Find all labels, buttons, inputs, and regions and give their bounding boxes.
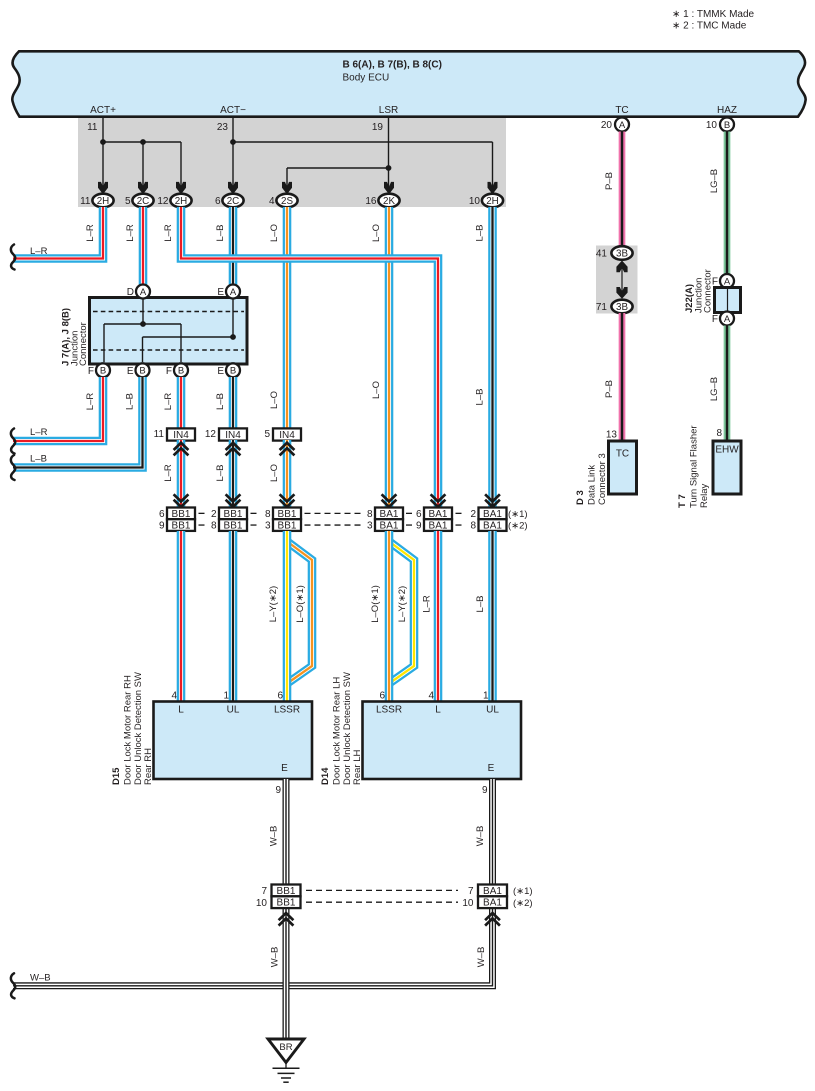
svg-text:ACT−: ACT− [220,105,246,116]
wire W-B D14 E down [489,779,496,885]
svg-text:71: 71 [596,302,608,313]
svg-text:B: B [230,366,236,377]
break symbol left L-R top [11,245,15,270]
arrow into 2H-10 [488,182,498,194]
svg-text:L–B: L–B [475,225,486,242]
svg-text:ACT+: ACT+ [90,105,116,116]
dashed link bottom link 10 [306,901,458,903]
svg-text:2H: 2H [175,196,188,207]
wire L-R from 2C5 to JC D [139,207,148,285]
svg-text:L–R: L–R [163,224,174,242]
connector BA1 8 col492.5 [479,519,507,531]
svg-text:E: E [217,366,224,377]
svg-text:BB1: BB1 [278,521,297,532]
connector BA1 10 bottom [478,896,507,908]
connector BB1 6 col181 [167,508,195,520]
svg-text:B 6(A), B 7(B), B 8(C): B 6(A), B 7(B), B 8(C) [343,60,442,71]
svg-text:P–B: P–B [604,380,615,398]
connector 2H pin11 [92,194,113,208]
label D14 title [320,672,363,785]
junction J7 node D [140,321,146,327]
wire J7 internal E drop [232,299,234,337]
svg-text:10: 10 [706,120,718,131]
svg-text:D14: D14 [320,767,331,785]
label D15 title [111,672,154,785]
svg-text:L–R: L–R [422,595,433,613]
wire J7 internal drop F2 [180,324,182,362]
svg-text:∗ 1 : TMMK Made: ∗ 1 : TMMK Made [672,9,755,20]
svg-text:3B: 3B [616,248,628,259]
svg-text:2: 2 [211,509,217,520]
wire L-O BA1 to D14 LSSR [385,531,394,701]
wire P-B TC down [619,132,626,248]
svg-text:Relay: Relay [699,483,710,508]
arrow into 2H-11 [98,182,108,194]
wire L-R BA1 to D14 L [434,531,443,701]
break symbol left L-R mid [11,429,15,454]
wire L-R from 2H11 to left [13,207,103,259]
svg-text:19: 19 [372,122,384,133]
pin J7 F(B)1 [96,363,110,377]
svg-text:D 3: D 3 [575,490,586,505]
svg-text:3: 3 [367,521,373,532]
svg-text:9: 9 [416,521,422,532]
break symbol left W-B bottom [11,973,15,998]
svg-text:10: 10 [256,898,268,909]
pin ECU HAZ pin B [720,118,734,132]
svg-text:P–B: P–B [604,172,615,190]
svg-text:12: 12 [157,196,169,207]
pin J22 F(A) bottom [720,312,734,326]
dashed link link b [251,512,261,514]
wire ACT+ branch bus [103,141,181,143]
svg-text:BB1: BB1 [224,521,243,532]
svg-text:Door Lock Motor Rear RH: Door Lock Motor Rear RH [123,675,134,785]
arrow down into 3B71 [616,287,627,299]
door lock motor rear LH D14 [363,691,522,780]
svg-text:BA1: BA1 [380,521,399,532]
junction connector J22 box [715,288,741,313]
svg-text:Connector: Connector [78,322,89,366]
svg-text:LSR: LSR [379,105,398,116]
wire W-B BB1 to ground [283,908,290,1038]
wire branch drop 2H12 [180,142,182,187]
dashed link link c [305,512,365,514]
svg-text:L–B: L–B [475,596,486,613]
pin J7 E(B)1 [136,363,150,377]
wire P-B to DLC3 [619,313,626,440]
svg-text:13: 13 [606,430,618,441]
wire L-B from 2C6 to JC E [229,207,238,285]
svg-text:3B: 3B [616,302,628,313]
svg-text:Rear LH: Rear LH [352,749,363,785]
svg-text:Connector 3: Connector 3 [597,453,608,505]
svg-text:L–R: L–R [163,464,174,482]
svg-text:1: 1 [223,691,229,702]
gray harness area [78,117,506,207]
wire L-Y BB1 to D15 LSSR [283,531,292,701]
connector 2C pin6 [222,194,243,208]
svg-text:6: 6 [379,691,385,702]
wire LSR branch bus [287,167,389,169]
svg-text:9: 9 [159,521,165,532]
svg-text:(∗1): (∗1) [508,509,528,520]
svg-text:LG–B: LG–B [709,377,720,401]
svg-text:L–O: L–O [269,224,280,242]
svg-text:2H: 2H [486,196,499,207]
svg-text:16: 16 [365,196,377,207]
svg-text:2C: 2C [227,196,240,207]
svg-text:L–R: L–R [85,393,96,411]
pin J7 D(A) [136,285,150,299]
connector BB1 9 col181 [167,519,195,531]
break symbol left L-B mid [11,455,15,480]
svg-text:E: E [217,287,224,298]
connector BB1 10 bottom [272,896,301,908]
wire L-O from 2S4 [283,207,292,429]
svg-text:W–B: W–B [475,826,486,847]
svg-text:5: 5 [264,429,270,440]
wire W-B D15 E down [283,779,290,885]
svg-text:F: F [166,366,172,377]
wire ACT- drop [232,117,234,187]
svg-text:BA1: BA1 [429,521,448,532]
svg-text:10: 10 [462,898,474,909]
svg-text:L–B: L–B [125,393,136,410]
wire LG-B to flasher [724,326,731,441]
svg-text:6: 6 [215,196,221,207]
svg-text:2H: 2H [97,196,110,207]
svg-text:L–R: L–R [85,224,96,242]
gray area TC splice [596,246,638,314]
dashed link bottom link 7 [306,889,458,891]
svg-text:3: 3 [265,521,271,532]
T7 flasher relay box [713,441,741,494]
connector arrow below pair x286 [279,913,294,926]
wire L-B IN4 to BB1 [229,440,238,508]
svg-text:L–R: L–R [30,246,48,257]
connector arrow above BB1 x287 [280,494,295,507]
svg-text:W–B: W–B [269,826,280,847]
pin J7 E(B)2 [226,363,240,377]
wire L-O IN4 to BB1 [283,440,292,508]
connector 2S pin4 [276,194,297,208]
svg-text:9: 9 [275,785,281,796]
connector BA1 7 bottom [478,885,507,897]
svg-text:6: 6 [277,691,283,702]
svg-text:LSSR: LSSR [274,705,300,716]
svg-text:12: 12 [205,429,217,440]
wire LSR drop [388,117,390,187]
svg-text:L–B: L–B [475,389,486,406]
connector 2K pin16 [378,194,399,208]
svg-text:L–O: L–O [269,391,280,409]
wire L-B BB1 to D15 UL [229,531,238,701]
connector BB1 3 col287 [273,519,301,531]
svg-text:LG–B: LG–B [709,169,720,193]
svg-text:E: E [488,763,495,774]
svg-text:L–Y(∗2): L–Y(∗2) [397,586,408,622]
svg-text:A: A [230,287,237,298]
label J22 title [684,269,714,313]
junction LSR node [386,165,392,171]
svg-text:(∗2): (∗2) [508,521,528,532]
dashed link link e [456,512,465,514]
svg-text:2S: 2S [281,196,293,207]
svg-text:5: 5 [125,196,131,207]
svg-text:8: 8 [265,509,271,520]
svg-text:6: 6 [159,509,165,520]
connector BB1 7 bottom [272,885,301,897]
svg-text:L–B: L–B [30,454,47,465]
wire L-B from 2H10 [488,207,497,508]
junction ACT+ node [100,139,106,145]
arrow into 2C-5 [138,182,148,194]
svg-text:HAZ: HAZ [717,105,737,116]
connector arrow above BB1 x438 [431,494,446,507]
svg-text:8: 8 [211,521,217,532]
junction ACT+ node b [140,139,146,145]
svg-text:11: 11 [154,429,165,440]
connector IN4 pin11 [167,428,195,441]
wire J7 internal D drop [142,299,144,324]
wire L-O loop D15 LSSR [289,543,313,683]
connector BA1 3 col389 [375,519,403,531]
svg-text:Turn Signal Flasher: Turn Signal Flasher [689,425,700,508]
dashed link link e [456,524,465,526]
svg-text:1: 1 [483,691,489,702]
wire branch drop 2S4 [286,168,288,187]
wire L-B from E(B)2 to IN4 [229,377,238,429]
svg-text:A: A [724,276,731,287]
svg-text:EHW: EHW [715,445,739,456]
junction ACT- node [230,139,236,145]
svg-text:11: 11 [87,122,98,133]
wire L-R BB1 to D15 L [177,531,186,701]
connector BA1 8 col389 [375,508,403,520]
svg-text:Connector: Connector [703,269,714,313]
svg-text:2K: 2K [383,196,395,207]
wire branch drop 2H10 [492,142,494,187]
wire LG-B HAZ down [724,132,731,275]
connector BA1 9 col438 [424,519,452,531]
svg-text:L–R: L–R [125,224,136,242]
svg-text:IN4: IN4 [173,430,189,441]
svg-text:L: L [435,705,441,716]
svg-text:4: 4 [428,691,434,702]
connector BA1 2 col492.5 [479,508,507,520]
svg-text:L–Y(∗2): L–Y(∗2) [268,586,279,622]
wire J7 internal bus1 [104,323,181,325]
connector arrow above BB1 x389 [382,494,397,507]
svg-text:8: 8 [367,509,373,520]
svg-text:10: 10 [469,196,481,207]
svg-text:A: A [724,314,731,325]
svg-text:∗ 2 : TMC Made: ∗ 2 : TMC Made [672,21,747,32]
svg-text:41: 41 [596,249,608,260]
svg-text:B: B [100,366,106,377]
svg-text:F: F [88,366,94,377]
label D3 title [575,453,608,505]
junction connector J7/J8 box [90,298,248,365]
dashed link link a [199,512,209,514]
svg-text:W–B: W–B [476,947,487,968]
door lock motor rear RH D15 [154,691,313,780]
connector BB1 8 col233 [219,519,247,531]
D3 data link connector box [609,441,637,494]
wire L-R from F(B)1 to left [13,377,103,441]
svg-text:L–O(∗1): L–O(∗1) [370,585,381,623]
svg-text:11: 11 [80,196,91,207]
svg-text:(∗2): (∗2) [513,898,533,909]
wire ACT+ drop [102,117,104,187]
svg-text:23: 23 [217,122,229,133]
svg-text:D: D [127,287,134,298]
svg-text:W–B: W–B [270,947,281,968]
arrow into 2S-4 [282,182,292,194]
connector 3B pin41 [611,246,632,260]
svg-text:(∗1): (∗1) [513,886,533,897]
wire L-O from 2K16 [385,207,394,508]
label T7 title [677,425,710,508]
connector arrow above BB1 x233 [226,494,241,507]
wire W-B BA1 to ground bus [13,908,493,986]
ECU B6/B7/B8 Body ECU band [12,51,805,116]
svg-text:B: B [139,366,145,377]
wire J7 internal drop F1 [103,324,105,362]
arrow into 2H-12 [176,182,186,194]
wire L-Y loop D14 LSSR [391,543,415,683]
svg-text:7: 7 [261,886,267,897]
wire L-R from 2H12 over to BA1 [181,207,438,508]
dashed link link d [406,524,414,526]
wire L-R IN4 to BB1 [177,440,186,508]
svg-text:L–O: L–O [371,381,382,399]
svg-text:8: 8 [716,428,722,439]
pin ECU TC pin A [615,118,629,132]
arrow into 2K-16 [384,182,394,194]
svg-text:IN4: IN4 [225,430,241,441]
connector IN4 pin5 [273,428,301,441]
junction J7 node E [230,334,236,340]
connector 2H pin12 [170,194,191,208]
wire branch drop 2C5 [142,142,144,187]
svg-text:BA1: BA1 [483,521,502,532]
arrow up into 3B41 [616,261,627,273]
svg-text:LSSR: LSSR [376,705,402,716]
svg-text:E: E [127,366,134,377]
connector arrow below pair x492.5 [485,913,500,926]
svg-text:L–O: L–O [371,224,382,242]
svg-text:L–O(∗1): L–O(∗1) [295,585,306,623]
connector arrow below IN4 x233 [226,443,241,456]
svg-text:Data Link: Data Link [587,465,598,505]
connector BB1 2 col233 [219,508,247,520]
svg-text:BB1: BB1 [277,898,296,909]
connector arrow above BB1 x492.5 [485,494,500,507]
svg-text:F: F [712,314,718,325]
connector BA1 6 col438 [424,508,452,520]
svg-text:9: 9 [482,785,488,796]
pin J22 F(A) top [720,274,734,288]
svg-text:L–O: L–O [269,464,280,482]
svg-text:BA1: BA1 [483,898,502,909]
svg-text:L: L [178,705,184,716]
svg-text:Body ECU: Body ECU [343,73,390,84]
connector IN4 pin12 [219,428,247,441]
svg-text:2C: 2C [137,196,150,207]
wire L-R from F(B)2 to IN4 [177,377,186,429]
svg-text:UL: UL [486,705,499,716]
svg-text:IN4: IN4 [279,430,295,441]
svg-text:4: 4 [269,196,275,207]
svg-text:L–R: L–R [163,393,174,411]
svg-text:L–R: L–R [30,427,48,438]
svg-text:L–B: L–B [215,225,226,242]
svg-text:20: 20 [601,120,613,131]
svg-text:UL: UL [227,705,240,716]
svg-text:L–B: L–B [215,393,226,410]
svg-text:Rear RH: Rear RH [143,748,154,785]
svg-text:B: B [178,366,184,377]
svg-text:TC: TC [615,105,628,116]
connector arrow above BB1 x181 [174,494,189,507]
dashed link link a [199,524,209,526]
dashed link link d [406,512,414,514]
arrow into 2C-6 [228,182,238,194]
svg-text:BR: BR [279,1042,292,1053]
svg-text:L–B: L–B [215,465,226,482]
svg-text:BB1: BB1 [172,521,191,532]
svg-text:Door Lock Motor Rear LH: Door Lock Motor Rear LH [332,677,343,785]
wire L-B BA1 to D14 UL [488,531,497,701]
svg-text:T 7: T 7 [677,494,688,508]
dashed link link c [305,524,365,526]
connector arrow below IN4 x287 [280,443,295,456]
svg-text:4: 4 [171,691,177,702]
pin J7 E(A) [226,285,240,299]
svg-text:TC: TC [616,449,629,460]
svg-text:A: A [619,120,626,131]
svg-text:B: B [724,120,730,131]
pin J7 F(B)2 [174,363,188,377]
wire L-B from E(B)1 to left [13,377,143,468]
label J7 title [61,308,90,366]
dashed link link b [251,524,261,526]
wire ACT- branch bus [233,141,493,143]
connector arrow below IN4 x181 [174,443,189,456]
svg-text:A: A [140,287,147,298]
svg-text:8: 8 [470,521,476,532]
connector 2C pin5 [132,194,153,208]
svg-text:W–B: W–B [30,973,51,984]
wire J7 internal bus2 [143,336,234,338]
wire J7 internal drop E1 [142,337,144,362]
svg-text:2: 2 [470,509,476,520]
ground BR [268,1039,304,1082]
svg-text:E: E [281,763,288,774]
svg-text:6: 6 [416,509,422,520]
svg-text:D15: D15 [111,767,122,785]
svg-text:7: 7 [468,886,474,897]
connector 2H pin10 [482,194,503,208]
connector BB1 8 col287 [273,508,301,520]
connector 3B pin71 [611,300,632,314]
wire 3B link [621,263,623,296]
